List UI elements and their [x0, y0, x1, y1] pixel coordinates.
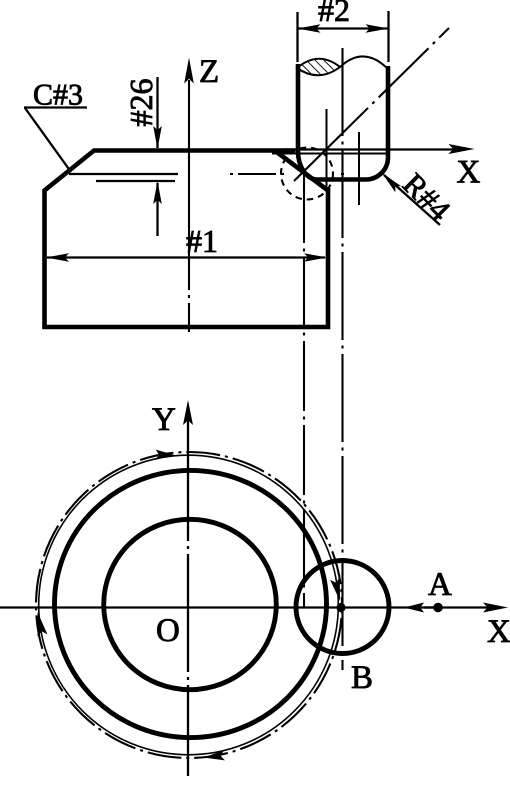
direction arc (thin circle): [39, 455, 339, 755]
svg-text:O: O: [156, 613, 180, 649]
direction arrowhead top: [155, 450, 175, 460]
X axis (upper view): [282, 148, 456, 150]
point A dot: [433, 603, 443, 613]
dimension #2 extension lines: [296, 12, 298, 62]
svg-text:B: B: [351, 660, 373, 696]
horizontal centre line y=174: [178, 173, 345, 175]
direction arrowhead right (at B): [330, 578, 340, 602]
arrow from A toward B: [424, 606, 437, 608]
dimension #2 line: [298, 27, 389, 29]
svg-text:Z: Z: [199, 54, 219, 90]
svg-text:A: A: [428, 567, 452, 603]
hidden edge projection x=326.5: [326, 109, 328, 190]
workpiece side-view outline: [45, 151, 329, 328]
chamfer edge thin line: [69, 173, 178, 175]
Z axis: [188, 80, 190, 332]
direction arrowhead left: [38, 612, 48, 637]
svg-text:#26: #26: [123, 79, 159, 127]
point B dot: [336, 603, 345, 612]
previous tool position (dashed circle): [281, 148, 333, 200]
svg-text:#2: #2: [318, 0, 350, 28]
dimension #26 lower line: [156, 183, 158, 236]
tool path centre-line circle (dash-dot): [36, 452, 342, 758]
svg-text:X: X: [457, 155, 481, 191]
cut chamfer edge (tool flank cut): [276, 152, 328, 191]
break line: right wave: [340, 56, 388, 69]
tool centre line (vertical): [341, 48, 343, 670]
C#3 leader line: [25, 108, 71, 172]
workpiece outer circle: [55, 470, 327, 737]
X axis (lower view): [0, 606, 488, 608]
auxiliary line x=359: [358, 132, 360, 205]
direction arrowhead bottom: [204, 750, 225, 760]
projection centre line x=304: [303, 173, 305, 607]
svg-text:#1: #1: [186, 223, 218, 259]
auxiliary thin line under axis: [272, 153, 387, 155]
svg-text:X: X: [487, 614, 510, 650]
Y axis: [187, 419, 189, 776]
dimension #1 line: [47, 256, 325, 258]
workpiece inner circle: [104, 519, 277, 689]
tool (cutter) outline: [298, 64, 388, 180]
svg-text:Y: Y: [152, 402, 176, 438]
tool circle at B: [296, 561, 389, 654]
#26 lower reference line: [96, 180, 175, 182]
leader R#4: [384, 175, 440, 225]
dimension #26 upper line: [156, 77, 158, 148]
45 degree centre line: [294, 28, 449, 181]
